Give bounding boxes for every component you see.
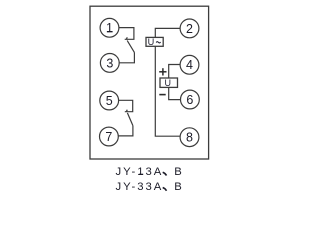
DC coil element U xyxy=(160,78,178,88)
caption model label JY-13A,B xyxy=(116,166,182,178)
contact K2 movable blade xyxy=(127,113,132,126)
wire terminal1 to contact K1 fixed point xyxy=(119,28,134,40)
terminal 4 xyxy=(180,55,199,74)
svg-text:4: 4 xyxy=(186,58,193,72)
wire terminal4 to terminal6 through DC coil xyxy=(169,65,181,100)
terminal 8 xyxy=(180,128,199,147)
svg-text:B: B xyxy=(174,166,182,178)
svg-text:U: U xyxy=(148,37,155,47)
terminal 2 xyxy=(180,19,199,38)
wire contact K1 blade to terminal 3 xyxy=(119,52,134,62)
relay case outline xyxy=(90,6,209,159)
polarity minus sign xyxy=(159,94,165,96)
terminal 6 xyxy=(181,90,200,109)
contact K2 fixed tip hook xyxy=(126,110,127,112)
svg-text:JY-13A: JY-13A xyxy=(116,166,164,178)
svg-text:5: 5 xyxy=(106,94,113,108)
contact K1 movable blade xyxy=(127,41,134,53)
terminal 3 xyxy=(100,54,119,73)
svg-text:1: 1 xyxy=(106,21,113,35)
svg-text:7: 7 xyxy=(105,130,112,144)
terminal 1 xyxy=(100,18,119,37)
AC voltage element U~ xyxy=(146,37,163,47)
caption model label JY-33A,B xyxy=(116,181,182,193)
wire terminal2 to terminal8 through AC element xyxy=(155,28,180,136)
wire terminal5 to contact K2 fixed point xyxy=(119,100,133,111)
terminal 5 xyxy=(100,91,119,110)
wire contact K2 blade to terminal 7 xyxy=(118,126,133,136)
terminal 7 xyxy=(100,127,119,146)
polarity plus sign xyxy=(159,68,166,75)
svg-text:JY-33A: JY-33A xyxy=(116,181,164,193)
contact K1 fixed tip hook xyxy=(126,37,127,39)
svg-text:B: B xyxy=(174,181,182,193)
svg-text:U: U xyxy=(164,78,171,88)
svg-text:8: 8 xyxy=(186,131,193,145)
svg-text:3: 3 xyxy=(106,56,113,70)
svg-text:6: 6 xyxy=(186,93,193,107)
svg-text:2: 2 xyxy=(186,22,193,36)
